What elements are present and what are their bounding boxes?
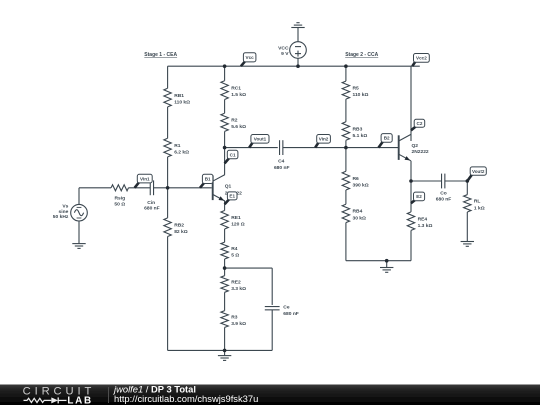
svg-text:680 nF: 680 nF	[283, 311, 299, 317]
svg-text:http://circuitlab.com/chswjs9f: http://circuitlab.com/chswjs9fsk37u	[114, 393, 258, 404]
svg-text:680 nF: 680 nF	[436, 196, 452, 202]
svg-text:E1: E1	[229, 194, 235, 199]
svg-text:C1: C1	[230, 152, 236, 157]
svg-text:390 kΩ: 390 kΩ	[353, 183, 369, 189]
svg-text:R4: R4	[231, 246, 238, 252]
svg-text:LAB: LAB	[67, 396, 92, 405]
svg-text:6.2 kΩ: 6.2 kΩ	[174, 150, 189, 156]
svg-text:5 Ω: 5 Ω	[231, 253, 239, 259]
svg-text:R5: R5	[353, 85, 360, 91]
svg-text:VCC: VCC	[278, 45, 289, 51]
svg-text:3.9 kΩ: 3.9 kΩ	[231, 321, 246, 327]
svg-text:sine: sine	[59, 209, 69, 215]
svg-text:50 Ω: 50 Ω	[114, 202, 125, 208]
svg-text:RB3: RB3	[353, 126, 363, 132]
svg-text:Vcc: Vcc	[246, 55, 255, 60]
svg-text:E2: E2	[416, 194, 422, 199]
svg-text:RB4: RB4	[353, 209, 363, 215]
svg-text:50 kHz: 50 kHz	[53, 214, 69, 220]
svg-text:Vout2: Vout2	[472, 169, 485, 174]
svg-text:1.5 kΩ: 1.5 kΩ	[231, 92, 246, 98]
svg-text:Cin: Cin	[147, 200, 155, 206]
svg-text:R6: R6	[353, 176, 360, 182]
svg-text:1 kΩ: 1 kΩ	[474, 205, 485, 211]
svg-text:5.6 kΩ: 5.6 kΩ	[231, 124, 246, 130]
svg-text:Ce: Ce	[283, 305, 290, 311]
svg-text:110 kΩ: 110 kΩ	[353, 92, 369, 98]
svg-text:110 kΩ: 110 kΩ	[174, 100, 190, 106]
svg-text:9 V: 9 V	[281, 51, 289, 57]
svg-text:Q1: Q1	[225, 183, 232, 189]
svg-text:Stage 1 - CEA: Stage 1 - CEA	[144, 52, 177, 58]
svg-text:1.3 kΩ: 1.3 kΩ	[418, 223, 433, 229]
svg-text:RB1: RB1	[174, 93, 184, 99]
svg-text:B2: B2	[384, 136, 390, 141]
svg-text:82 kΩ: 82 kΩ	[174, 229, 188, 235]
svg-text:Rsig: Rsig	[114, 196, 125, 202]
svg-text:2N2222: 2N2222	[412, 149, 429, 155]
svg-text:RE2: RE2	[231, 279, 241, 285]
svg-text:RE1: RE1	[231, 215, 241, 221]
svg-text:Vin1: Vin1	[140, 176, 150, 181]
svg-text:30 kΩ: 30 kΩ	[353, 215, 367, 221]
svg-text:C2: C2	[417, 121, 423, 126]
svg-text:RL: RL	[474, 199, 481, 205]
svg-text:R1: R1	[174, 143, 181, 149]
svg-text:Stage 2 - CCA: Stage 2 - CCA	[345, 52, 378, 58]
svg-text:Vout1: Vout1	[254, 137, 267, 142]
svg-text:R2: R2	[231, 118, 238, 124]
svg-text:RC1: RC1	[231, 85, 241, 91]
svg-text:680 nF: 680 nF	[274, 165, 290, 171]
svg-text:RB2: RB2	[174, 223, 184, 229]
svg-text:120 Ω: 120 Ω	[231, 222, 245, 228]
svg-text:680 nF: 680 nF	[144, 205, 160, 211]
svg-text:R3: R3	[231, 314, 238, 320]
svg-text:Vs: Vs	[62, 204, 68, 210]
svg-text:C4: C4	[278, 159, 285, 165]
svg-text:3.3 kΩ: 3.3 kΩ	[231, 286, 246, 292]
svg-text:RE4: RE4	[418, 216, 428, 222]
svg-text:Q2: Q2	[412, 143, 419, 149]
svg-text:Vin2: Vin2	[319, 137, 329, 142]
svg-text:Co: Co	[440, 190, 447, 196]
svg-text:5.1 kΩ: 5.1 kΩ	[353, 133, 368, 139]
svg-text:Vcc2: Vcc2	[416, 56, 427, 61]
svg-text:B1: B1	[205, 177, 211, 182]
